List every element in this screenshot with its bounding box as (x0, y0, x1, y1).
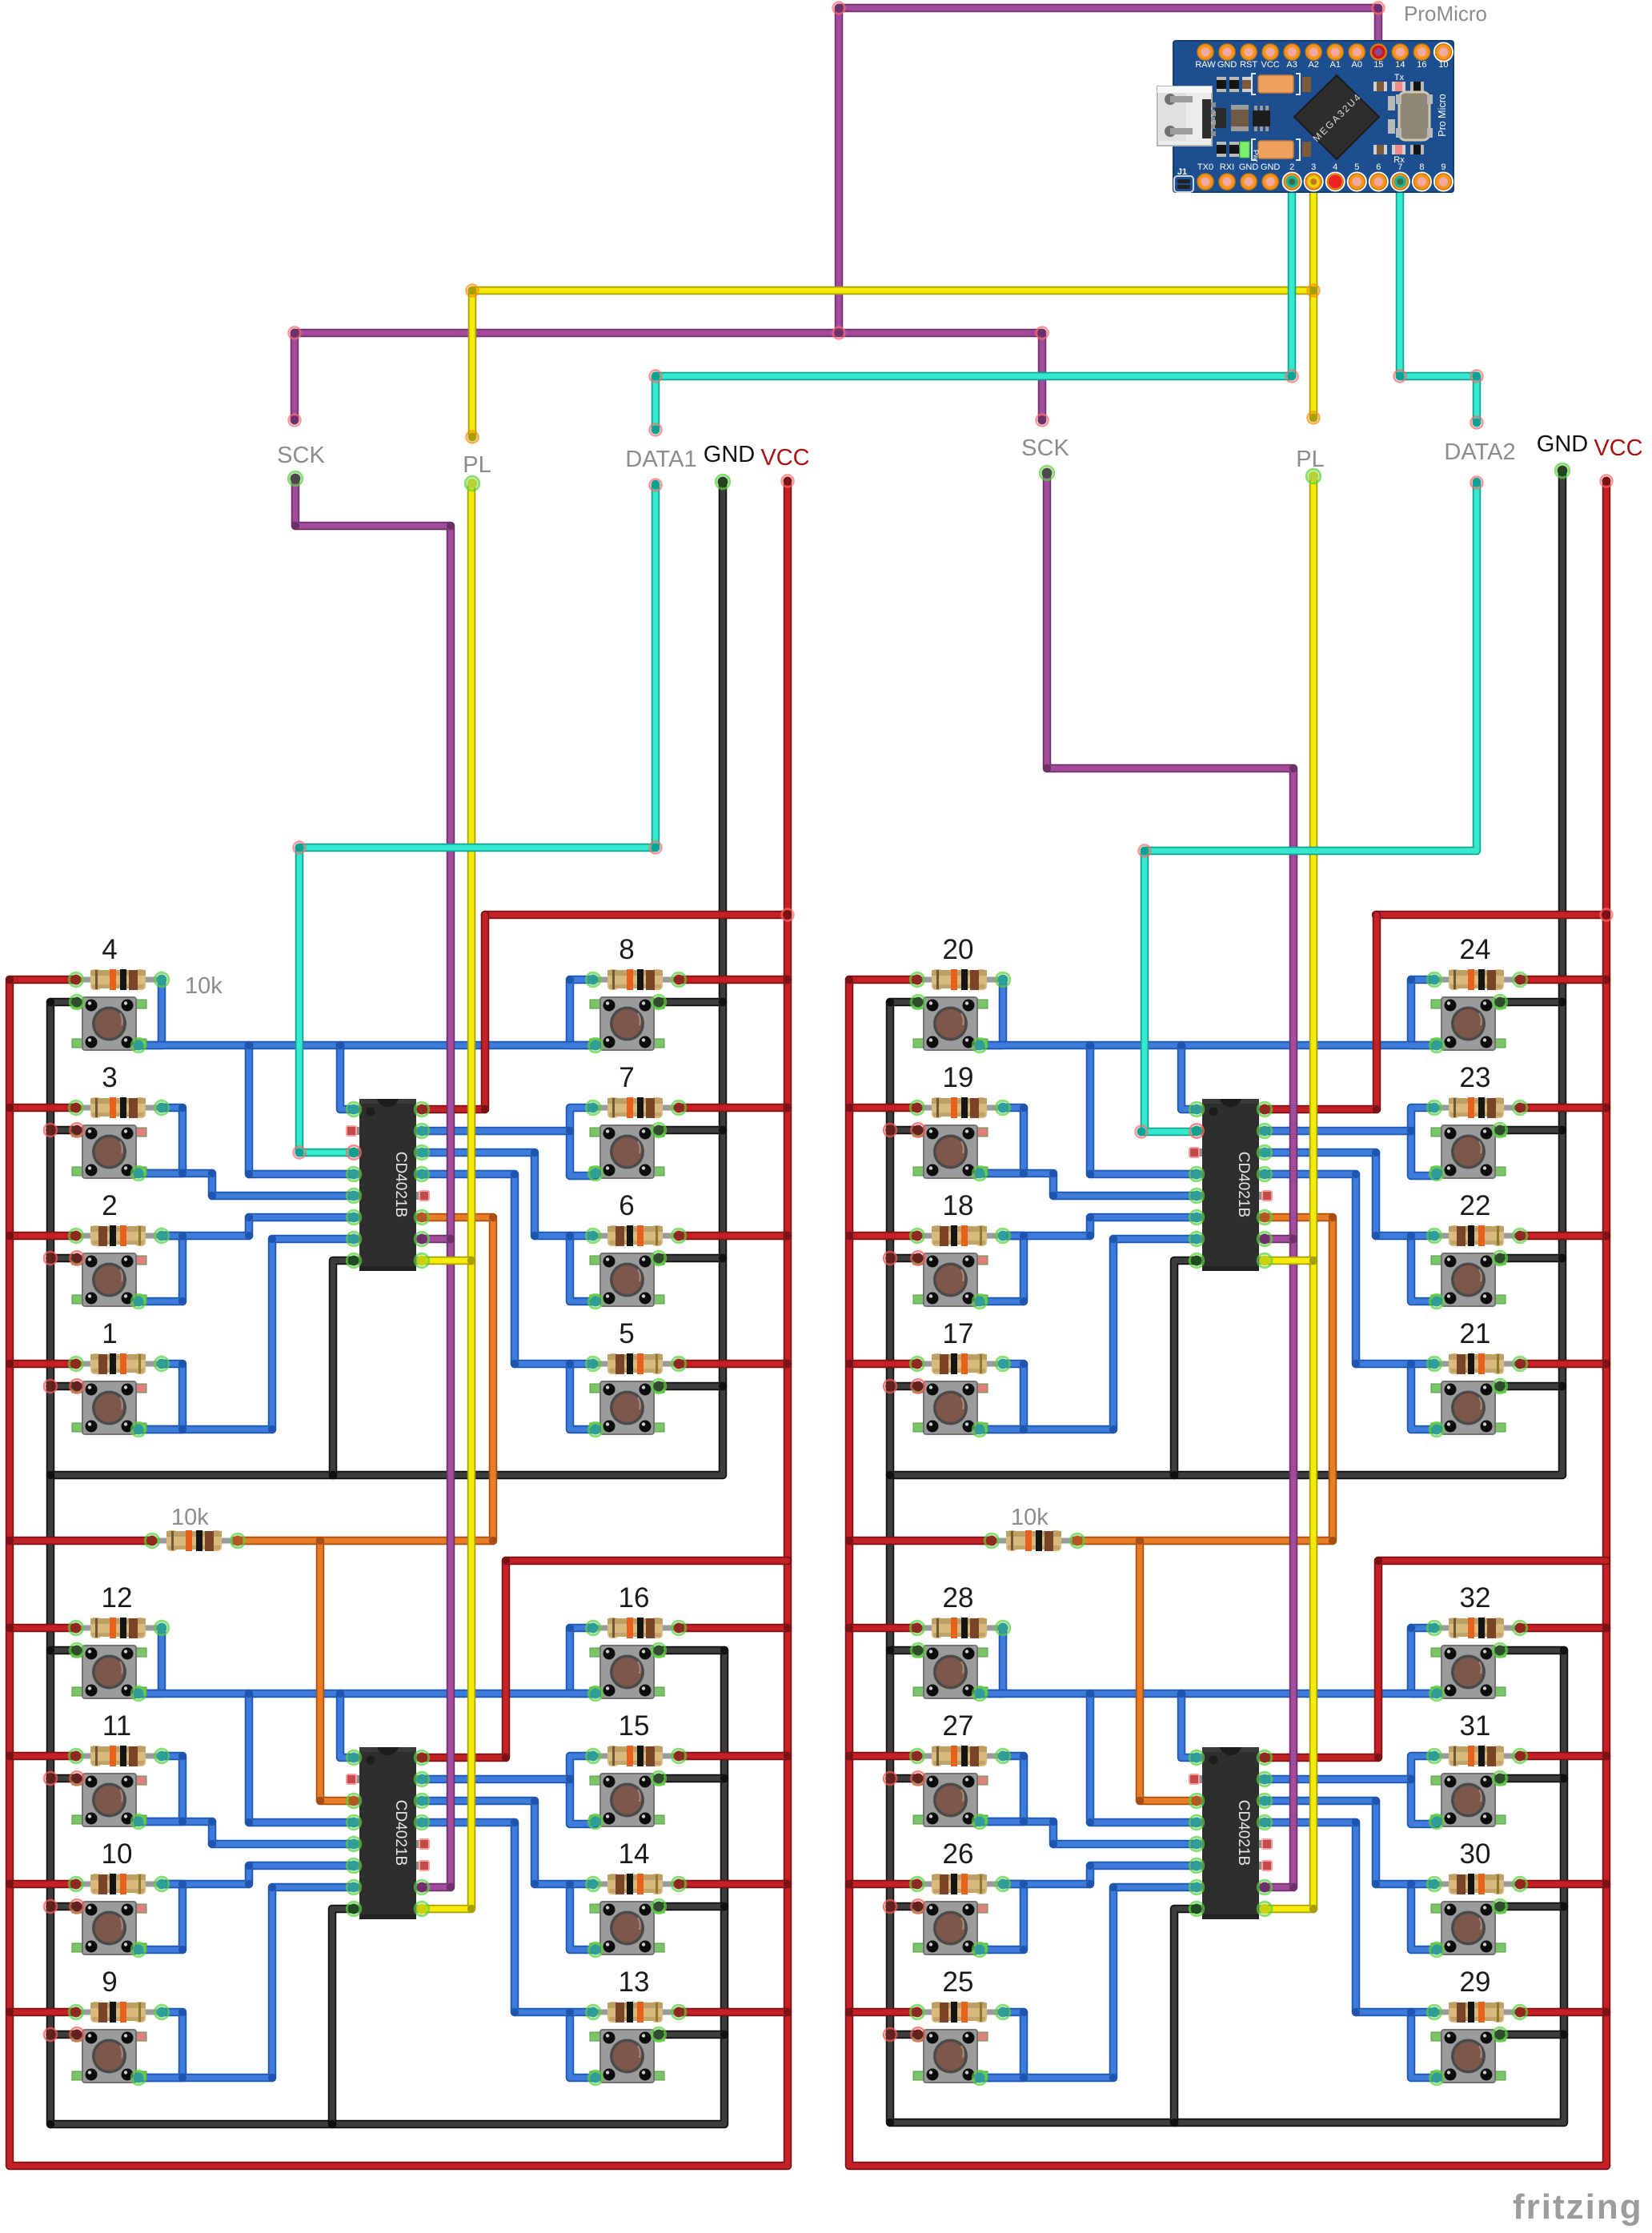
junction bend (1020, 2008, 1028, 2016)
wire loop right col row3 (1411, 1236, 1437, 1301)
svg-text:30: 30 (1460, 1838, 1491, 1870)
wire btn left1 to L4 (249, 1694, 355, 1822)
wire btn right1 to L1 (1181, 1045, 1197, 1109)
wire btn right1 to L1 (1181, 1694, 1197, 1758)
svg-text:Pro Micro: Pro Micro (1437, 94, 1448, 137)
node VCC top bus end (1601, 909, 1613, 921)
svg-text:25: 25 (943, 1966, 974, 1998)
wire VCC stub left col y2354 (10, 1880, 76, 1889)
svg-text:8: 8 (619, 934, 634, 965)
svg-text:31: 31 (1460, 1710, 1491, 1742)
svg-text:Rx: Rx (1393, 155, 1405, 165)
wire VCC stub right-half right col y1544 (1520, 1232, 1606, 1241)
junction GND T (720, 1774, 728, 1782)
U1 pin L3 DATA1 connection (347, 1145, 360, 1159)
wire R2 to btn right2 (421, 1127, 570, 1136)
wire PL right stub U3 (1263, 1257, 1313, 1265)
resistor R5 10k (593, 1353, 679, 1374)
wire R4 to btn right4 (1262, 1174, 1434, 1364)
wire loop left col row3 (138, 1236, 182, 1301)
node DATA1 stub (650, 479, 662, 491)
wire R3 to btn right3 (421, 1801, 593, 1884)
junction bend (178, 2074, 186, 2082)
wire GND stub right col y2034 (659, 1646, 724, 1655)
junction VCC T (6, 1880, 14, 1888)
wire GND stub left col y1544 (50, 1254, 77, 1263)
junction VCC bend (502, 1557, 510, 1565)
wire DATA2 lower (1145, 482, 1477, 1132)
ProMicro passives (1258, 75, 1293, 93)
junction VCC T (845, 1537, 853, 1545)
svg-text:9: 9 (102, 1966, 117, 1998)
wire VCC stub right-half left col y2194 (849, 1752, 917, 1761)
wire SCK top horizontal (295, 329, 1042, 338)
wire GND stub left col y1704 (50, 1382, 77, 1391)
junction GND T (719, 998, 727, 1006)
svg-text:23: 23 (1460, 1062, 1491, 1093)
junction VCC T (1602, 1880, 1610, 1888)
wire GND stub right-half left col y2194 (890, 1774, 916, 1783)
junction VCC T (1602, 1104, 1610, 1112)
junction bend (178, 1169, 186, 1177)
junction bend (999, 976, 1007, 984)
pushbutton S23 (1431, 1125, 1506, 1178)
svg-text:1: 1 (102, 1318, 117, 1349)
junction bend (178, 1946, 186, 1954)
junction orange bend (489, 1537, 497, 1545)
junction bend (531, 1797, 539, 1805)
node SCK label end (1037, 415, 1049, 427)
node VCC stub (782, 475, 794, 487)
wire VCC stub left col y2194 (10, 1752, 76, 1761)
wire loop left col row4 (979, 1364, 1024, 1429)
wire VCC stub right-half right col y1384 (1520, 1104, 1606, 1112)
junction GND T (1560, 1646, 1568, 1654)
junction VCC T (784, 1624, 792, 1632)
node DATA2 stub (1471, 477, 1483, 489)
IC U1 CD4021B (347, 1099, 429, 1271)
wire btn row1 shared horiz (980, 1690, 1437, 1698)
IC U2 CD4021B (347, 1747, 429, 1919)
wire btn right1 to L1 (340, 1045, 355, 1109)
junction bend (336, 1041, 344, 1049)
wire GND stub right col y2194 (659, 1774, 724, 1783)
junction GND T (719, 1126, 727, 1134)
junction bend (268, 1425, 276, 1433)
wire loop right col row3 (570, 1236, 595, 1301)
resistor R9 10k (76, 2002, 162, 2023)
svg-text:CD4021B: CD4021B (392, 1152, 409, 1217)
svg-text:17: 17 (943, 1318, 974, 1349)
junction bend (566, 1880, 574, 1888)
junction bend (1352, 2008, 1360, 2016)
wire SCK drop right (1038, 333, 1047, 420)
node DATA2 bend (1139, 845, 1151, 857)
junction bend (1086, 1690, 1094, 1698)
pushbutton S18 (913, 1253, 988, 1306)
junction VCC T (6, 1104, 14, 1112)
resistor R2 10k (76, 1225, 162, 1246)
wire btn right1 to L1 (340, 1694, 355, 1758)
junction bend (178, 1818, 186, 1826)
pushbutton S30 (1431, 1902, 1506, 1954)
wire R4 to btn right4 (421, 1174, 593, 1364)
wire btn left3 to L6 (1003, 1217, 1197, 1236)
junction bend (1020, 1752, 1028, 1760)
wire R4 to btn right4 (1262, 1822, 1434, 2012)
wire btn left1 to L4 (249, 1045, 355, 1174)
svg-text:TX0: TX0 (1197, 162, 1213, 172)
svg-text:13: 13 (619, 1966, 650, 1998)
junction bend (1407, 976, 1415, 984)
junction VCC T (784, 976, 792, 984)
pushbutton S26 (913, 1902, 988, 1954)
wire VCC stub right col y1224 (679, 976, 788, 984)
wire loop left col row3 (138, 1884, 182, 1950)
node VCC top bus end (782, 909, 794, 921)
ProMicro USB connector (1157, 86, 1212, 146)
node DATA1 end (650, 424, 662, 436)
junction bend (1020, 1104, 1028, 1112)
pushbutton S11 (72, 1774, 146, 1826)
svg-text:A0: A0 (1352, 60, 1362, 70)
wire btn left3 to L6 (162, 1866, 355, 1884)
junction orange bend (1329, 1537, 1337, 1545)
junction orange bend (316, 1797, 324, 1805)
junction bend (245, 1818, 253, 1826)
wire loop left col row2 (979, 1108, 1024, 1173)
junction GND T (886, 998, 894, 1006)
junction GND T (46, 1902, 54, 1910)
svg-text:15: 15 (619, 1710, 650, 1742)
junction VCC T (6, 1624, 14, 1632)
wire VCC stub left col y1384 (10, 1104, 76, 1112)
resistor R30 10k (1434, 1874, 1520, 1894)
svg-text:RST: RST (1240, 60, 1257, 70)
junction VCC T (784, 1557, 792, 1565)
junction VCC T (6, 1232, 14, 1240)
svg-text:fritzing: fritzing (1513, 2187, 1643, 2227)
junction bend (245, 1041, 253, 1049)
junction bend (1372, 1232, 1380, 1240)
wire GND stub left col y2194 (50, 1774, 77, 1783)
wire VCC stub right col y1544 (679, 1232, 788, 1241)
junction bend (336, 1690, 344, 1698)
junction bend (1407, 1232, 1415, 1240)
junction bend (1086, 1880, 1094, 1888)
wire VCC stub right col y2034 (679, 1624, 788, 1633)
wire SCK left bus (295, 479, 451, 1887)
junction bend (1086, 1818, 1094, 1826)
resistor R27 10k (917, 1746, 1003, 1766)
junction GND T (886, 1646, 894, 1654)
junction GND T (719, 1254, 727, 1262)
wire btn left3 to L6 (1003, 1866, 1197, 1884)
junction bend (245, 1170, 253, 1178)
junction bend (1049, 1840, 1057, 1848)
junction VCC T (784, 1360, 792, 1368)
junction bend (158, 976, 166, 984)
junction bend (1177, 1041, 1185, 1049)
node DATA1 bend (1286, 371, 1298, 383)
node SCK junction (833, 327, 845, 339)
resistor R8 10k (593, 969, 679, 990)
wire GND stub right-half right col y2514 (1500, 2031, 1564, 2039)
net stub ends (288, 471, 302, 485)
wire VCC stub right-half left col y2354 (849, 1880, 917, 1889)
junction VCC T (1602, 1360, 1610, 1368)
junction VCC bend (1373, 1105, 1381, 1113)
junction GND T (720, 1902, 728, 1910)
junction bend (511, 1818, 519, 1826)
wire loop left col row4 (138, 1364, 182, 1429)
wire GND stub right-half left col y2354 (890, 1902, 916, 1911)
resistor R7 10k (593, 1097, 679, 1118)
junction bend (1020, 1360, 1028, 1368)
resistor R3 10k (76, 1097, 162, 1118)
svg-text:12: 12 (102, 1582, 133, 1614)
wire loop left col row2 (138, 1108, 182, 1173)
junction VCC T (845, 1624, 853, 1632)
resistor R11 10k (76, 1746, 162, 1766)
junction bend (1086, 1041, 1094, 1049)
wire loop right col row4 (570, 1364, 595, 1429)
node SCK bend (833, 2, 845, 14)
pushbutton S24 (1431, 997, 1506, 1050)
wire loop right col row2 (1411, 1756, 1437, 1824)
wire VCC stub right col y1384 (679, 1104, 788, 1112)
junction bend (245, 1690, 253, 1698)
svg-text:15: 15 (1373, 60, 1383, 70)
junction bend (566, 2008, 574, 2016)
wire btn row1 shared horiz (980, 1041, 1437, 1050)
junction bend (566, 1127, 574, 1135)
node DATA2 bend2 (1471, 371, 1483, 383)
wire VCC stub right-half right col y2034 (1520, 1624, 1606, 1633)
junction bend (245, 1213, 253, 1221)
wire VCC stub left col y1224 (10, 976, 76, 984)
resistor R10 10k (76, 1874, 162, 1894)
junction bend (268, 2074, 276, 2082)
wire GND stub right-half right col y2034 (1500, 1646, 1564, 1655)
wire GND stub right-half right col y1224 (1500, 998, 1562, 1007)
ProMicro pin7 DATA2 connection (1394, 176, 1406, 188)
pushbutton S4 (72, 997, 146, 1050)
wire VCC left main bus (10, 484, 788, 2166)
wire GND stub right-half right col y1704 (1500, 1382, 1562, 1391)
wire btn left4 to L7 (138, 1887, 355, 2078)
svg-text:RAW: RAW (1195, 60, 1216, 70)
wire GND stub left col y1384 (50, 1126, 77, 1135)
wire loop right col row4 (570, 2012, 595, 2078)
resistor R25 10k (917, 2002, 1003, 2023)
junction VCC T (6, 976, 14, 984)
svg-text:GND: GND (1239, 162, 1259, 172)
svg-text:16: 16 (619, 1582, 650, 1614)
wire PL right bus (1263, 475, 1313, 1909)
svg-text:A1: A1 (1330, 60, 1341, 70)
wire VCC stub right-half right col y2354 (1520, 1880, 1606, 1889)
wire VCC U2 riser (421, 1561, 788, 1758)
junction bend (531, 1232, 539, 1240)
junction bend (178, 1752, 186, 1760)
wire SCK right stub U3 (1263, 1235, 1293, 1244)
resistor R20 10k (917, 969, 1003, 990)
U3 pin L2 DATA2 connection (1189, 1124, 1203, 1137)
junction orange bend (1136, 1797, 1144, 1805)
node DATA2 end U3 (1136, 1126, 1148, 1138)
junction bend (1372, 1797, 1380, 1805)
wire VCC stub right col y1704 (679, 1360, 788, 1369)
junction bend (1109, 1425, 1117, 1433)
junction PL end U2 (467, 1905, 475, 1913)
resistor R22 10k (1434, 1225, 1520, 1246)
node PL junction (1308, 285, 1320, 297)
pushbutton S27 (913, 1774, 988, 1826)
pushbutton S29 (1431, 2030, 1506, 2083)
wire VCC stub right-half left col y1224 (849, 976, 917, 984)
svg-text:28: 28 (943, 1582, 974, 1614)
svg-text:20: 20 (943, 934, 974, 965)
junction PL T U3 (1309, 1257, 1317, 1265)
junction bend (1177, 1690, 1185, 1698)
ProMicro pin2 DATA1 connection (1286, 176, 1298, 188)
wire btn left2 to L5 (138, 1822, 355, 1844)
junction bend (1372, 1149, 1380, 1157)
junction SCK bend (1043, 764, 1051, 772)
svg-text:11: 11 (102, 1710, 131, 1742)
ProMicro pin3 PL connection (1308, 176, 1320, 188)
resistor R13 10k (593, 2002, 679, 2023)
wire btn left2 to L5 (980, 1822, 1197, 1844)
wire serial link branch to U2 (320, 1541, 355, 1801)
junction bend (208, 1818, 216, 1826)
node DATA1 end U1 (294, 1147, 306, 1159)
pushbutton S31 (1431, 1774, 1506, 1826)
wire VCC stub right-half right col y2514 (1520, 2008, 1606, 2017)
junction GND T (1560, 1774, 1568, 1782)
junction VCC T (1373, 911, 1381, 919)
node VCC stub (1601, 475, 1613, 487)
wire btn left4 to L7 (980, 1887, 1197, 2078)
wire R2 to btn right2 (421, 1775, 570, 1784)
junction bend (566, 976, 574, 984)
wire GND right lower bus (890, 1475, 1564, 2123)
junction bend (511, 1170, 519, 1178)
wire GND stub left col y2034 (50, 1646, 77, 1655)
junction GND T (1560, 1902, 1568, 1910)
svg-text:GND: GND (1261, 162, 1281, 172)
junction bend (566, 1360, 574, 1368)
junction GND T (1560, 2031, 1568, 2039)
junction VCC T (1602, 1232, 1610, 1240)
resistor R12 10k (76, 1618, 162, 1638)
ProMicro MEGA32U4 chip (1294, 75, 1379, 159)
junction GND T (720, 2031, 728, 2039)
wire VCC stub right-half left col y1384 (849, 1104, 917, 1112)
wire loop right col row4 (1411, 1364, 1437, 1429)
wire VCC stub 10k left (10, 1537, 152, 1545)
svg-text:14: 14 (1395, 60, 1405, 70)
svg-text:9: 9 (1441, 162, 1445, 172)
junction bend (511, 2008, 519, 2016)
junction GND T (886, 1382, 894, 1390)
pushbutton S7 (590, 1125, 664, 1178)
svg-text:14: 14 (619, 1838, 650, 1870)
wire btn left3 to L6 (162, 1217, 355, 1236)
pushbutton S20 (913, 997, 988, 1050)
wire VCC right main bus (849, 484, 1606, 2166)
wire PL left stub U1 (421, 1257, 471, 1265)
junction SCK bend (1289, 764, 1297, 772)
junction bend (1407, 1360, 1415, 1368)
junction bend (1407, 1880, 1415, 1888)
wire VCC stub right-half right col y1704 (1520, 1360, 1606, 1369)
wire serial link U1-U2 via R9 left (235, 1217, 493, 1541)
junction bend (178, 2008, 186, 2016)
wire PL top horizontal (472, 287, 1313, 295)
junction GND T (46, 1126, 54, 1134)
junction orange bend (1329, 1213, 1337, 1221)
junction GND T (1558, 1126, 1566, 1134)
junction GND junction (46, 2120, 54, 2128)
junction VCC T (845, 2008, 853, 2016)
junction bend (1086, 1232, 1094, 1240)
junction VCC T (845, 1104, 853, 1112)
wire PL left bus (421, 484, 471, 1909)
pushbutton S19 (913, 1125, 988, 1178)
junction bend (566, 1775, 574, 1783)
junction GND T (1558, 998, 1566, 1006)
svg-text:CD4021B: CD4021B (392, 1800, 409, 1866)
wire VCC top bus left (485, 911, 788, 920)
junction SCK end U2 (447, 1883, 455, 1891)
wire VCC stub left col y2034 (10, 1624, 76, 1633)
svg-text:SCK: SCK (277, 443, 325, 468)
wire R3 to btn right3 (1262, 1153, 1434, 1236)
wire GND stub right-half right col y2194 (1500, 1774, 1564, 1783)
junction GND T (46, 2031, 54, 2039)
junction bend (1020, 1169, 1028, 1177)
svg-text:29: 29 (1460, 1966, 1491, 1998)
junction VCC T (1602, 1557, 1610, 1565)
junction VCC T (845, 1232, 853, 1240)
junction bend (178, 1297, 186, 1305)
wire GND stub right-half left col y2514 (890, 2031, 916, 2039)
svg-text:21: 21 (1460, 1318, 1491, 1349)
wire VCC stub left col y1704 (10, 1360, 76, 1369)
junction bend (1020, 1297, 1028, 1305)
wire VCC top bus right (1376, 911, 1606, 920)
resistor R17 10k (917, 1353, 1003, 1374)
svg-text:GND: GND (1537, 431, 1588, 457)
pushbutton S10 (72, 1902, 146, 1954)
pushbutton S15 (590, 1774, 664, 1826)
wire GND stub left col y2514 (50, 2031, 77, 2039)
junction GND T (886, 1902, 894, 1910)
pushbutton S5 (590, 1381, 664, 1434)
junction bend (1086, 1862, 1094, 1870)
svg-text:6: 6 (1376, 162, 1381, 172)
svg-text:26: 26 (943, 1838, 974, 1870)
ProMicro pin headers (1197, 44, 1213, 60)
junction bend (531, 1880, 539, 1888)
resistor R23 10k (1434, 1097, 1520, 1118)
node SCK bend (1373, 2, 1385, 14)
svg-text:10k: 10k (1011, 1505, 1049, 1530)
pushbutton S6 (590, 1253, 664, 1306)
node DATA1 bend (650, 842, 662, 854)
